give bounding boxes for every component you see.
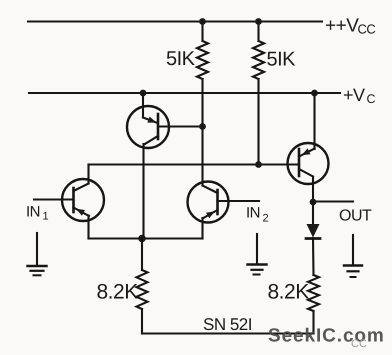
wire bottom return line xyxy=(142,332,314,334)
node junction dot Q2 emitter to +VC rail xyxy=(140,90,147,97)
wire +VC rail xyxy=(29,92,340,94)
svg-text:OUT: OUT xyxy=(339,207,372,224)
resistor R1 51K xyxy=(197,41,208,79)
node junction dot R1 top xyxy=(199,18,206,25)
svg-text:1: 1 xyxy=(43,211,49,223)
wire Q1 emitter down to bus xyxy=(87,216,89,239)
svg-text:IN: IN xyxy=(26,204,40,221)
wire Q2 collector down to emitter bus xyxy=(142,144,144,239)
node junction dot Q4 emitter to +VC rail xyxy=(311,90,318,97)
svg-text:IN: IN xyxy=(246,205,260,222)
resistor R2 51K xyxy=(253,41,264,79)
node junction dot Q2 base to net A xyxy=(199,123,206,130)
svg-text:CC: CC xyxy=(358,22,376,37)
svg-text:C: C xyxy=(367,92,376,106)
ground symbol below IN2 xyxy=(248,234,267,275)
port label IN2 xyxy=(246,205,269,225)
svg-text:++V: ++V xyxy=(325,16,359,37)
svg-text:+V: +V xyxy=(343,85,365,105)
wire Q4 emitter up to +VC xyxy=(313,93,315,149)
wire ++VCC top rail xyxy=(28,20,322,22)
diode CR1 xyxy=(306,224,320,239)
wire OUT node to diode xyxy=(312,202,314,225)
wire Q2 emitter stub xyxy=(142,93,144,118)
wire emitter bus xyxy=(89,237,203,239)
svg-text:SeekIC.com: SeekIC.com xyxy=(268,326,385,347)
wire Q4 collector down to OUT node xyxy=(312,177,314,203)
wire collector line (Q1 collector to Q4 base) xyxy=(89,163,300,165)
wire Q1 collector up to collector line xyxy=(87,165,89,184)
net label ++VCC xyxy=(325,16,375,37)
watermark SeekIC.com xyxy=(268,326,385,351)
svg-text:5IK: 5IK xyxy=(166,48,196,70)
node junction dot bus to R3 xyxy=(138,235,146,243)
svg-text:5IK: 5IK xyxy=(267,49,297,71)
node junction dot R2 top xyxy=(255,18,262,25)
wire Q2 base lead xyxy=(158,125,203,127)
wire diode to R4 xyxy=(312,238,315,275)
transistor Q4 (output PNP) xyxy=(288,143,329,184)
wire OUT lead xyxy=(313,200,353,202)
svg-text:CC: CC xyxy=(351,338,367,350)
net label +VC xyxy=(343,85,376,106)
port label IN1 xyxy=(26,204,49,223)
wire Q3 emitter down to bus xyxy=(201,218,203,239)
node junction dot net B to collector line xyxy=(255,161,262,168)
svg-text:8.2K: 8.2K xyxy=(268,281,310,304)
svg-text:2: 2 xyxy=(263,213,269,225)
transistor Q3 (IN2 PNP) xyxy=(188,182,229,223)
resistor R4 8.2K xyxy=(308,275,319,334)
ground symbol below OUT xyxy=(344,235,362,277)
wire IN1 input lead xyxy=(34,198,74,200)
resistor R3 8.2K xyxy=(137,239,148,334)
ground symbol below IN1 xyxy=(28,233,47,275)
wire IN2 input lead xyxy=(218,200,260,202)
transistor Q1 (IN1 PNP) xyxy=(62,179,104,221)
wire vertical net B (51K R2 column) xyxy=(257,22,259,165)
transistor Q2 (top middle PNP) xyxy=(127,106,169,148)
wire vertical net A (51K R1, Q1 base, Q3 collector column) xyxy=(201,22,203,186)
node junction dot OUT xyxy=(310,199,317,206)
svg-text:SN 52I: SN 52I xyxy=(203,315,252,334)
svg-text:8.2K: 8.2K xyxy=(97,281,139,304)
